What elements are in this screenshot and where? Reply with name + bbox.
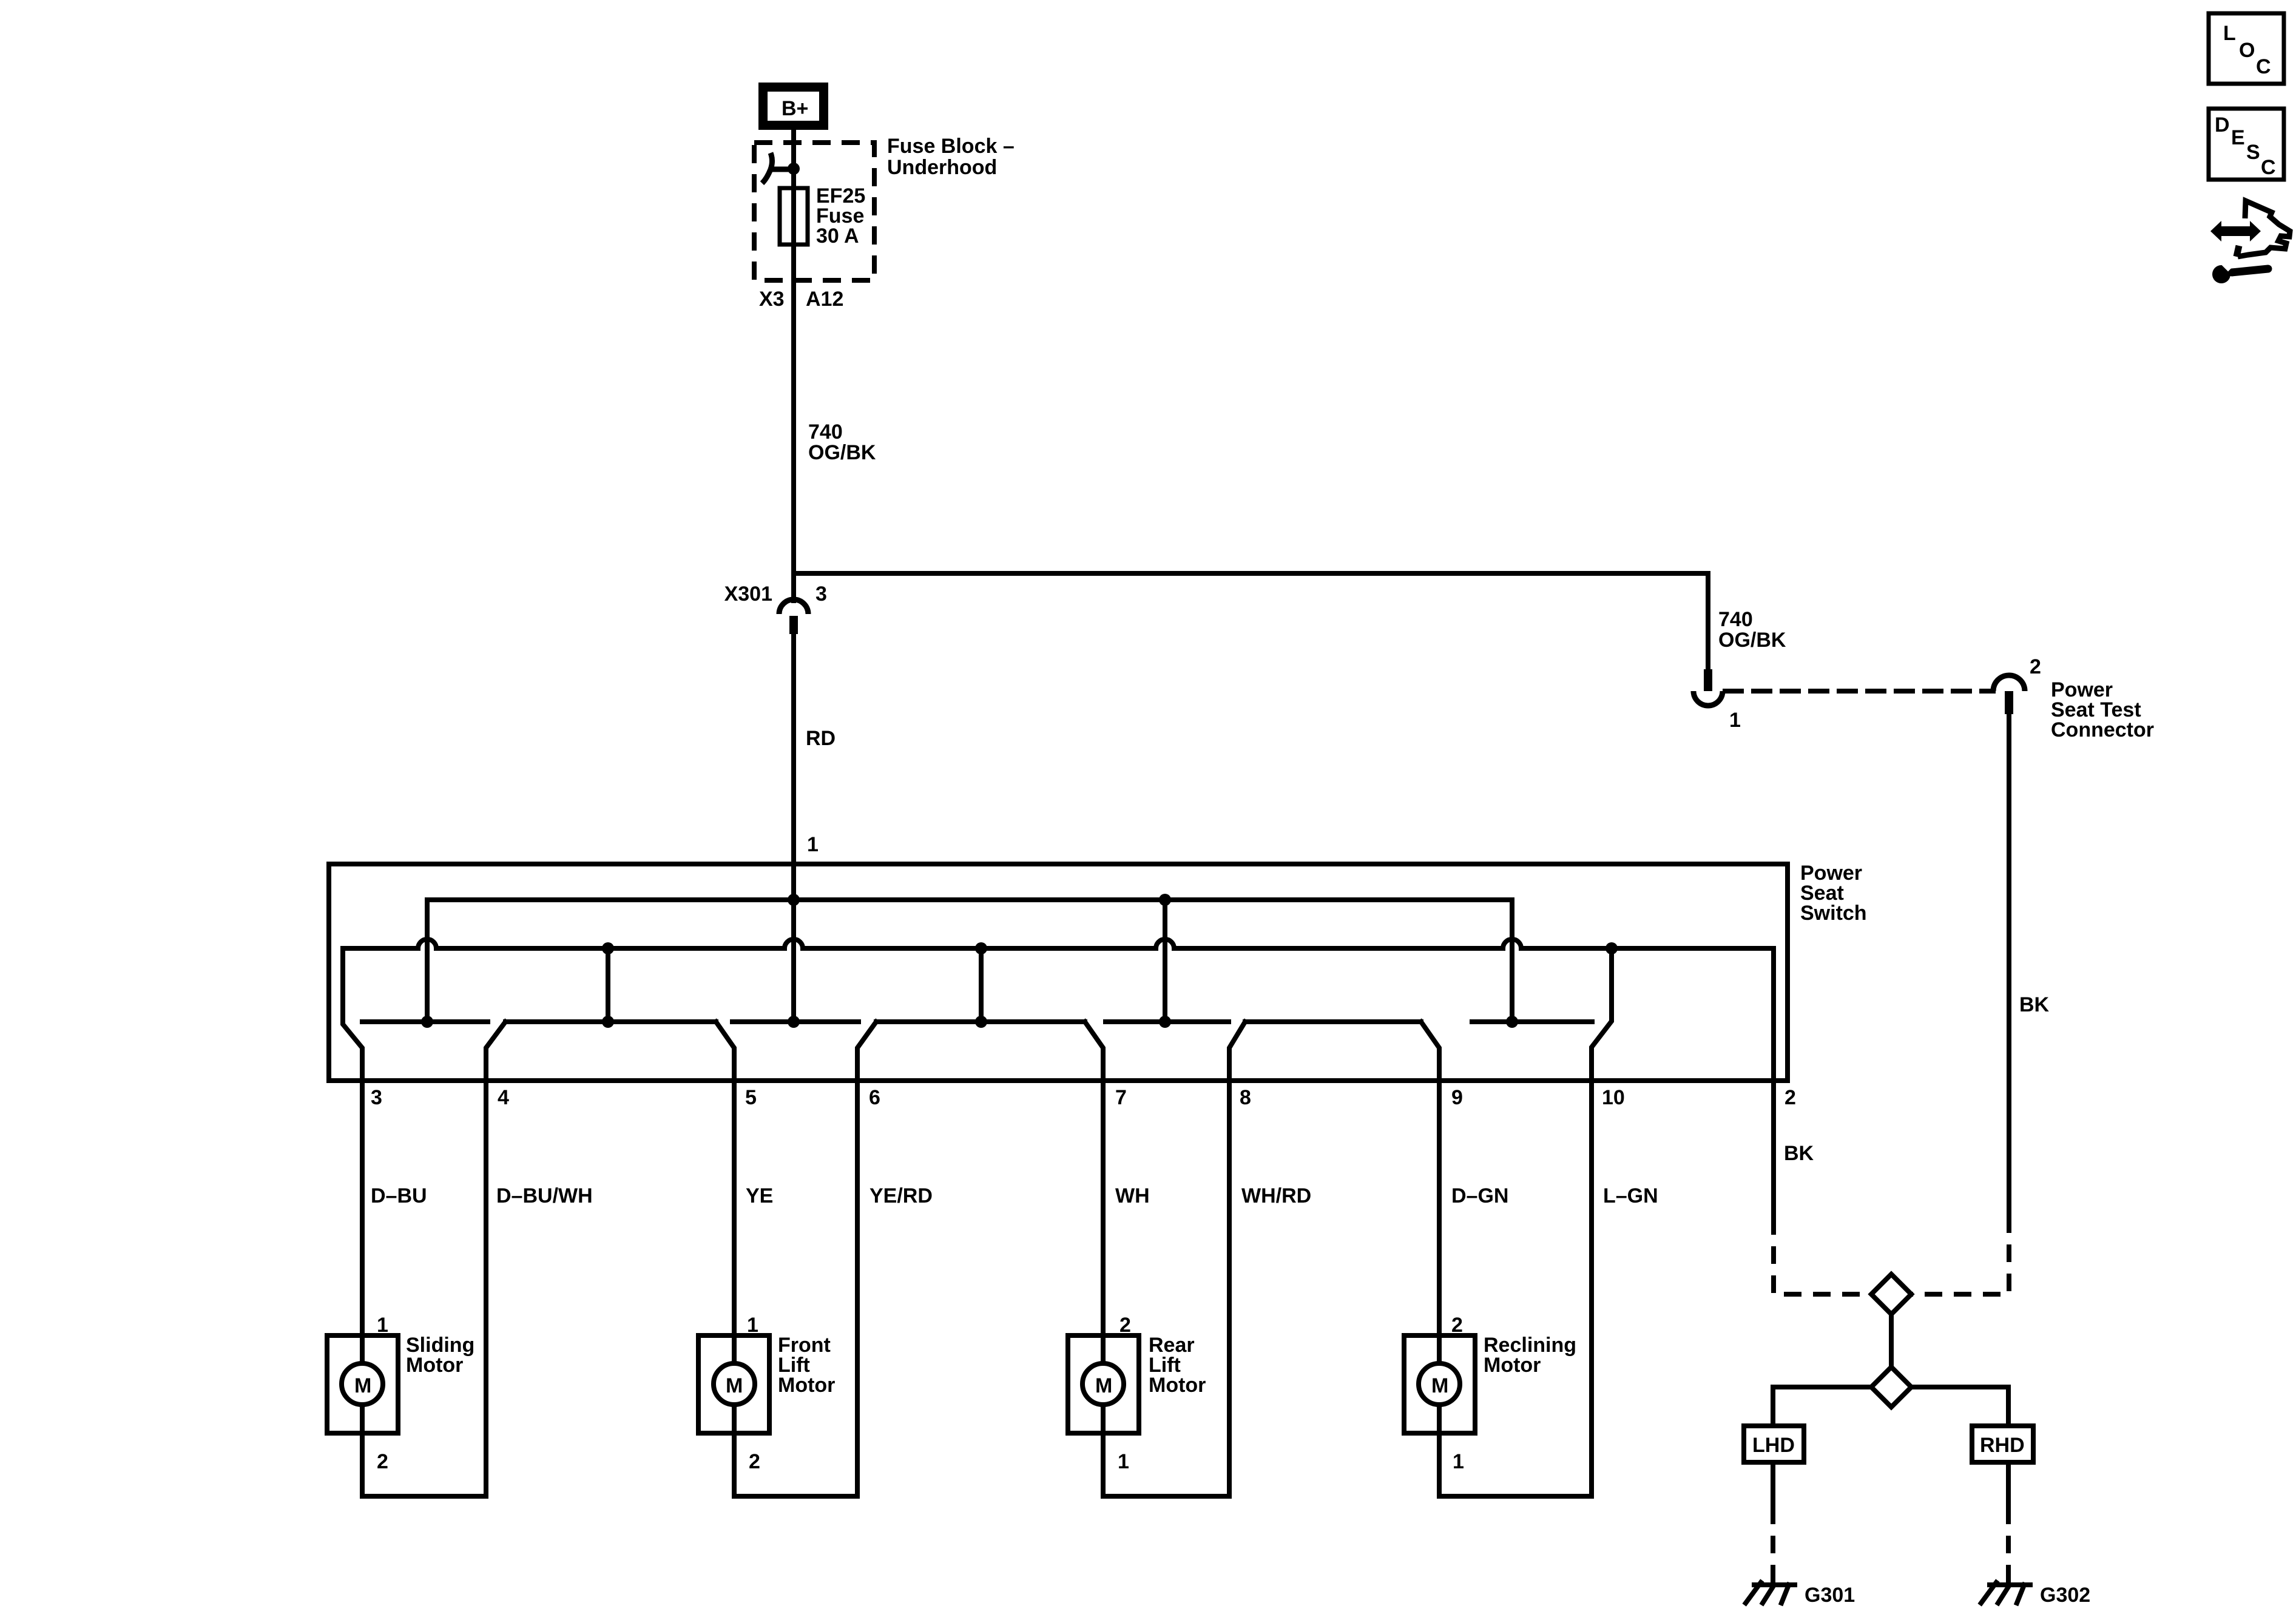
wire to RHD xyxy=(1911,1387,2008,1426)
svg-text:2: 2 xyxy=(1784,1086,1796,1109)
svg-text:1: 1 xyxy=(1729,709,1741,732)
wire to LHD xyxy=(1773,1387,1871,1426)
fuse block dashed outline xyxy=(754,143,874,280)
svg-text:D: D xyxy=(2215,113,2230,137)
switch arm pin 5 wire xyxy=(716,1022,734,1496)
ground G301 xyxy=(1746,1575,1855,1607)
wire pin1 feed to bar3 xyxy=(791,634,796,1022)
svg-text:RHD: RHD xyxy=(1980,1434,2025,1457)
svg-text:B+: B+ xyxy=(782,97,808,120)
svg-text:Motor: Motor xyxy=(1484,1354,1541,1377)
fuse EF25 30A xyxy=(780,188,808,245)
svg-text:E: E xyxy=(2231,126,2245,149)
svg-text:YE: YE xyxy=(746,1184,773,1207)
icon wrench xyxy=(2212,260,2268,283)
svg-text:WH/RD: WH/RD xyxy=(1241,1184,1311,1207)
label 740 OG/BK left xyxy=(808,420,876,464)
svg-text:RD: RD xyxy=(806,727,836,750)
svg-text:Switch: Switch xyxy=(1800,902,1867,925)
svg-text:OG/BK: OG/BK xyxy=(1718,629,1786,652)
motor M1 Sliding xyxy=(327,1314,486,1496)
wire dashed test connector mating xyxy=(1725,689,1993,694)
splice diamond S1 xyxy=(1871,1274,1911,1314)
wire BK test connector down xyxy=(2007,714,2011,1215)
svg-text:D–BU: D–BU xyxy=(371,1184,427,1207)
switch arm pin 7 wire xyxy=(1085,1022,1103,1496)
wire B+ to fuse block xyxy=(791,130,796,141)
svg-text:3: 3 xyxy=(815,582,827,606)
bus A battery feed inside switch xyxy=(427,897,1512,902)
svg-text:3: 3 xyxy=(371,1086,382,1109)
wire RHD down xyxy=(2006,1462,2011,1507)
wire splice to splice xyxy=(1889,1314,1894,1367)
switch arm pin 6 wire xyxy=(857,1022,876,1496)
motor M4 Reclining xyxy=(1404,1314,1592,1496)
svg-text:740: 740 xyxy=(1718,608,1753,631)
svg-text:30 A: 30 A xyxy=(816,224,859,248)
svg-text:C: C xyxy=(2256,55,2271,78)
svg-text:X301: X301 xyxy=(724,582,772,606)
svg-text:Motor: Motor xyxy=(778,1374,835,1397)
svg-text:YE/RD: YE/RD xyxy=(869,1184,933,1207)
box RHD xyxy=(1972,1426,2033,1462)
connector X301 pin 3 xyxy=(779,573,808,634)
junction dots xyxy=(788,894,800,906)
svg-text:740: 740 xyxy=(808,420,843,444)
svg-text:2: 2 xyxy=(749,1450,760,1473)
svg-text:M: M xyxy=(726,1374,743,1397)
label Power Seat Switch xyxy=(1800,862,1867,925)
svg-text:M: M xyxy=(354,1374,371,1397)
svg-text:1: 1 xyxy=(1118,1450,1129,1473)
contact bar 4 xyxy=(876,1019,1085,1024)
contact bar 2 xyxy=(505,1019,716,1024)
svg-text:D–BU/WH: D–BU/WH xyxy=(496,1184,593,1207)
wire pin 2 BK dashed to splice xyxy=(1774,1217,1871,1294)
svg-text:LHD: LHD xyxy=(1752,1434,1795,1457)
connector power seat test half pin 1 xyxy=(1693,669,1723,706)
svg-text:L: L xyxy=(2223,22,2236,45)
wire bus A to bar5 xyxy=(1163,900,1167,1022)
wire branch to test connector xyxy=(794,573,1708,669)
contact bar 6 xyxy=(1245,1019,1421,1024)
wire bus A right leg to bar7 xyxy=(1510,900,1514,1022)
svg-text:10: 10 xyxy=(1602,1086,1625,1109)
svg-text:M: M xyxy=(1431,1374,1448,1397)
svg-text:BK: BK xyxy=(2019,993,2050,1016)
svg-text:7: 7 xyxy=(1115,1086,1127,1109)
wire BK dashed to splice xyxy=(1911,1215,2009,1294)
svg-text:G301: G301 xyxy=(1805,1584,1855,1607)
icon jumper harness arrow xyxy=(2210,201,2290,257)
battery stud clip symbol xyxy=(769,167,794,172)
wire LHD down xyxy=(1771,1462,1775,1507)
switch arm pin 9 wire xyxy=(1421,1022,1439,1496)
svg-text:1: 1 xyxy=(807,833,819,856)
svg-text:Motor: Motor xyxy=(1149,1374,1206,1397)
switch arm pin 8 wire xyxy=(1229,1022,1245,1496)
switch arm pin 3 and wire to motor xyxy=(343,948,362,1496)
svg-text:L–GN: L–GN xyxy=(1603,1184,1658,1207)
bus B ground inside switch with hops xyxy=(343,939,1774,948)
svg-text:5: 5 xyxy=(745,1086,757,1109)
label 740 OG/BK right xyxy=(1718,608,1786,652)
pin number labels xyxy=(371,1086,1796,1109)
contact bar 5 xyxy=(1106,1019,1229,1024)
switch arm pin 10 wire xyxy=(1592,948,1612,1496)
svg-text:Underhood: Underhood xyxy=(887,156,997,179)
motor M2 Front Lift xyxy=(698,1314,857,1496)
wire pin 2 BK xyxy=(1771,948,1776,1217)
svg-text:S: S xyxy=(2246,141,2260,164)
connector power seat test half pin 2 xyxy=(1993,675,2025,714)
svg-text:X3: X3 xyxy=(759,288,785,311)
svg-text:G302: G302 xyxy=(2040,1584,2090,1607)
label Fuse Block Underhood xyxy=(887,135,1015,179)
svg-text:Motor: Motor xyxy=(406,1354,463,1377)
icon DESC box xyxy=(2209,109,2284,180)
ground G302 xyxy=(1981,1575,2090,1607)
svg-text:Fuse Block –: Fuse Block – xyxy=(887,135,1015,158)
contact bar 7 xyxy=(1472,1019,1592,1024)
contact bar 3 xyxy=(732,1019,859,1024)
svg-text:2: 2 xyxy=(2030,655,2041,678)
svg-text:4: 4 xyxy=(498,1086,509,1109)
box LHD xyxy=(1744,1426,1804,1462)
label Power Seat Test Connector xyxy=(2051,678,2154,741)
svg-text:WH: WH xyxy=(1115,1184,1150,1207)
svg-text:C: C xyxy=(2261,156,2276,179)
contact bar 1 xyxy=(362,1019,488,1024)
wire bus B to bar4 xyxy=(979,948,984,1022)
svg-text:1: 1 xyxy=(1453,1450,1464,1473)
svg-text:2: 2 xyxy=(377,1450,388,1473)
splice diamond S2 xyxy=(1871,1367,1911,1407)
motor M3 Rear Lift xyxy=(1068,1314,1229,1496)
svg-text:Connector: Connector xyxy=(2051,718,2154,741)
svg-text:O: O xyxy=(2239,39,2255,62)
svg-text:9: 9 xyxy=(1451,1086,1463,1109)
switch arm pin 4 wire xyxy=(486,1022,505,1496)
wire fuse to branch xyxy=(791,245,796,573)
wire bus A left leg to bar1 xyxy=(425,900,430,1022)
node B+ battery feed xyxy=(758,83,828,130)
wire inside fuse block xyxy=(791,141,796,245)
switch box Power Seat Switch xyxy=(329,864,1788,1081)
svg-text:D–GN: D–GN xyxy=(1451,1184,1508,1207)
svg-text:6: 6 xyxy=(869,1086,880,1109)
wire color labels xyxy=(371,1142,1814,1207)
icon LOC box xyxy=(2209,13,2284,84)
svg-text:BK: BK xyxy=(1784,1142,1814,1165)
svg-text:A12: A12 xyxy=(806,288,843,311)
svg-text:OG/BK: OG/BK xyxy=(808,441,876,464)
svg-text:8: 8 xyxy=(1240,1086,1251,1109)
wire RD X301 to switch pin 1 xyxy=(791,634,796,864)
wire bus B to bar2 xyxy=(606,948,610,1022)
svg-text:M: M xyxy=(1095,1374,1112,1397)
